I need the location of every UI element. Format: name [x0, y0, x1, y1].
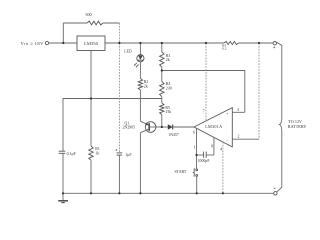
svg-text:2: 2 [238, 135, 240, 139]
wire ADJ rail [63, 99, 162, 152]
terminal input [45, 41, 48, 44]
switch S1 START [196, 169, 198, 171]
capacitor C3 1000pF [197, 154, 204, 156]
svg-text:3: 3 [237, 108, 239, 112]
regulator U1 LM350 [77, 36, 105, 51]
svg-text:VIN ≥ 18V: VIN ≥ 18V [21, 41, 45, 46]
resistor R1 1k [90, 99, 92, 147]
svg-text:LED: LED [124, 50, 132, 54]
terminal output plus [273, 42, 276, 45]
battery brace [279, 119, 281, 131]
wire battery minus lead [277, 131, 282, 192]
svg-text:LM350: LM350 [84, 41, 98, 46]
terminal output minus [274, 192, 277, 195]
resistor R2 2k LED branch [139, 62, 141, 79]
resistor R3 2k divider top [161, 43, 163, 52]
svg-text:15k: 15k [165, 110, 171, 114]
resistor R bypass 500 [62, 23, 64, 43]
svg-text:+: + [226, 112, 228, 116]
svg-text:1k: 1k [95, 151, 99, 155]
svg-text:1000pF: 1000pF [198, 159, 211, 163]
wire divider junction [161, 67, 163, 82]
capacitor C1 0.1uF [59, 150, 65, 152]
resistor R4 230 divider bottom [160, 82, 164, 97]
svg-text:6: 6 [193, 130, 195, 134]
svg-text:1N457: 1N457 [168, 133, 179, 137]
LED emission arrows [134, 63, 137, 66]
wire battery plus lead [276, 42, 281, 118]
wire ground rail [63, 192, 274, 194]
svg-text:230: 230 [166, 86, 172, 90]
svg-text:0.2: 0.2 [222, 47, 227, 51]
svg-text:0.1μF: 0.1μF [67, 152, 77, 156]
junction dots [62, 42, 64, 44]
svg-text:8: 8 [211, 145, 213, 149]
transistor Q1 2N2905 [145, 122, 156, 133]
svg-text:4: 4 [220, 148, 222, 152]
diode D2 1N457 [162, 126, 168, 128]
svg-text:−: − [226, 139, 228, 143]
svg-text:2k: 2k [166, 58, 170, 62]
svg-text:2N2905: 2N2905 [123, 126, 136, 130]
op-amp U2 LM301A [194, 108, 232, 147]
wire reference line to op-amp [162, 71, 245, 113]
svg-text:1μF: 1μF [125, 153, 132, 157]
wire op-amp pin 8 [213, 137, 215, 155]
svg-text:BATTERY: BATTERY [288, 124, 307, 129]
svg-text:1: 1 [194, 145, 196, 149]
svg-text:2k: 2k [144, 85, 148, 89]
wire op-amp V+ pin 7 [205, 43, 207, 121]
wire input to regulator [49, 42, 77, 44]
LED D1 [139, 43, 141, 55]
wire op-amp pin 4 [222, 142, 224, 194]
capacitor C2 1uF [118, 43, 120, 153]
svg-text:7: 7 [203, 110, 205, 114]
resistor R5 15k [160, 103, 164, 115]
svg-text:START: START [175, 170, 187, 174]
wire ADJ pin [90, 51, 92, 99]
svg-text:LM301A: LM301A [205, 124, 222, 129]
resistor RS 0.2 current sense [224, 41, 239, 44]
wire regulator output line [105, 42, 224, 44]
wire op-amp pin 2 input [232, 138, 259, 140]
wire op-amp pin 1 [196, 128, 198, 169]
wire op-amp pin 3 input [232, 111, 245, 113]
wire LED branch to Q1 [139, 90, 141, 121]
wire Q1 emitter to ground rail [139, 133, 141, 194]
ground [62, 193, 64, 200]
svg-text:500: 500 [85, 12, 91, 17]
